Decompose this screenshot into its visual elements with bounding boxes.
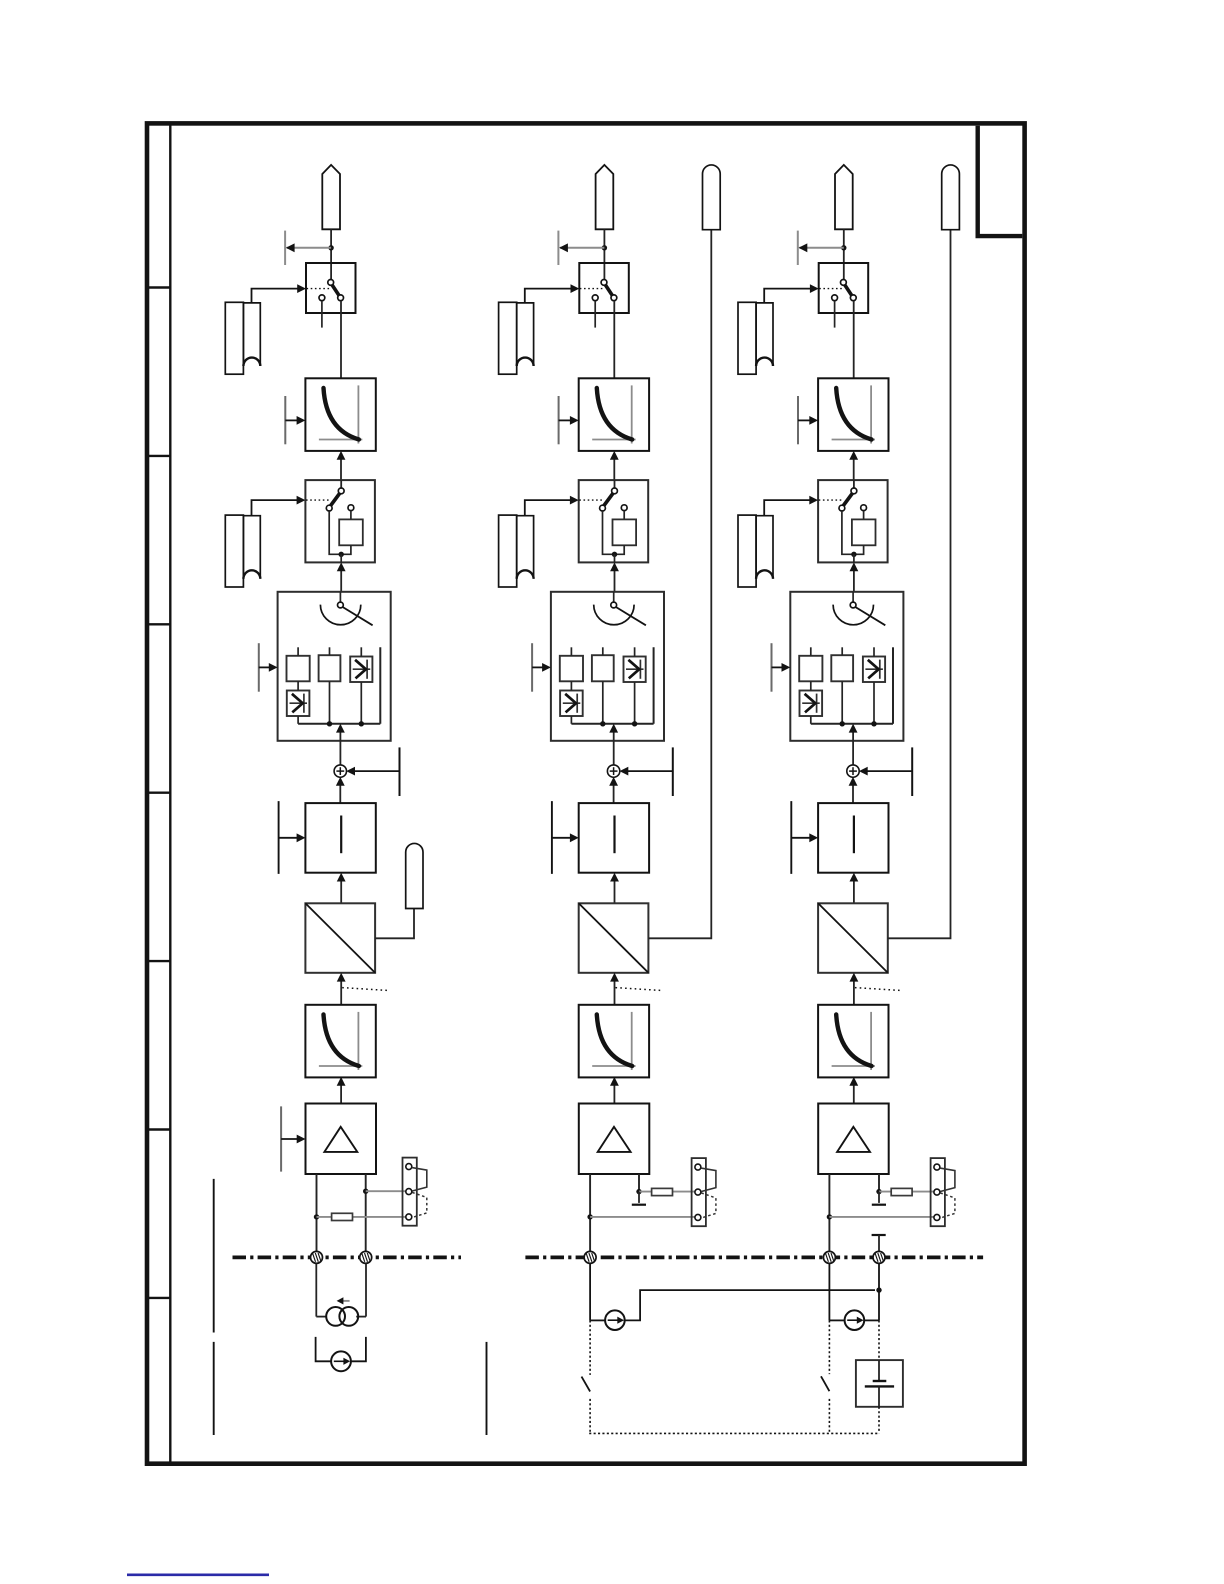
wire: F1.2 up to DIV1 bbox=[337, 973, 346, 1005]
bushing terminal left (column 1) bbox=[311, 1251, 323, 1263]
selector switch S2.2 (box) bbox=[579, 480, 649, 562]
U3 rail node 1 bbox=[840, 721, 845, 726]
wire: node to terminal strip TB1 pin2 bbox=[366, 1190, 406, 1192]
node on A2 left output bbox=[587, 1214, 592, 1219]
summing junction SUM3 bbox=[847, 765, 859, 777]
amplifier block A2 bbox=[579, 1104, 650, 1175]
wire: J1.1 to TP1.1 bbox=[286, 243, 331, 252]
wire: M1 down to node bbox=[342, 545, 351, 554]
wire: P1.1 to S1.1 select input bbox=[252, 284, 307, 302]
arrow input into I2 bbox=[552, 833, 579, 842]
wire: X3.1 down to switch S3.1 bbox=[843, 229, 845, 279]
U1 square B stub bbox=[329, 647, 331, 655]
function block F2.2 (decay characteristic) bbox=[579, 1005, 649, 1078]
bushing terminal right (column 3) bbox=[873, 1251, 885, 1263]
wire: S3.2 contact b down to node bbox=[842, 511, 853, 554]
wire: X1.1 down to switch S1.1 bbox=[330, 229, 332, 279]
wire: P2.2 to S2.2 select input bbox=[525, 496, 579, 515]
tap TP1.2 (T-bar) bbox=[284, 396, 286, 444]
disconnect switch SW2 (dotted feeder) bbox=[589, 1320, 591, 1375]
parameter curve symbol P2.1 bbox=[499, 302, 534, 374]
S1.1 contact a bbox=[328, 280, 334, 286]
transformer TR1 polarity arrow bbox=[337, 1297, 350, 1304]
integrator block I1 bbox=[305, 803, 375, 873]
column separator line a bbox=[213, 1179, 215, 1333]
current source CS2 bbox=[605, 1310, 625, 1330]
wire: bushing down to CS3 bbox=[828, 1264, 830, 1321]
wire: S2.2 contact b down to node bbox=[603, 511, 614, 554]
wire: DIV1 output to terminal Y1 bbox=[375, 909, 414, 939]
S1.2 contact a bbox=[338, 488, 344, 494]
arrow input into F3.1 bbox=[798, 416, 818, 425]
node J1.1 bbox=[328, 245, 333, 250]
terminal strip TB3 bbox=[931, 1158, 955, 1226]
selector switch S1.2 (box) bbox=[305, 480, 375, 562]
wire: bushing to CS2 left lead bbox=[590, 1319, 605, 1321]
U1 wire A to D bbox=[297, 681, 299, 690]
current source CS1 bbox=[331, 1351, 351, 1371]
system boundary dash-dot line (left segment) bbox=[233, 1256, 462, 1260]
U3 wire D down to rail bbox=[810, 716, 812, 724]
U1 meter arc bbox=[320, 605, 360, 625]
wire: A1 right output down bbox=[365, 1174, 367, 1251]
S3.1 contact c bbox=[850, 295, 856, 301]
S2.2 contact c bbox=[621, 505, 627, 511]
wire: node to TB1 pin3 (through R1) bbox=[317, 1216, 406, 1218]
U3 meter pivot stub bbox=[852, 592, 854, 602]
U3 wire C down to rail bbox=[873, 682, 875, 724]
memory sub-block M1 in S1.2 bbox=[339, 519, 363, 545]
U1 meter pivot bbox=[338, 602, 344, 608]
hyperlink underline (blue) bbox=[127, 1574, 269, 1577]
wire: DIV2 output up to terminal Y2 bbox=[648, 230, 711, 939]
limit controller box U3 (outline) bbox=[790, 592, 903, 741]
S1.2 lever bbox=[330, 493, 340, 507]
wire: P1.2 to S1.2 select input bbox=[252, 496, 306, 515]
wire: bushing to transformer bracket left bbox=[315, 1264, 317, 1317]
integrator block I2 bbox=[579, 803, 649, 873]
U2 threshold square B bbox=[592, 655, 614, 681]
wire: node J3.2 to S3.2 bottom bbox=[853, 554, 855, 562]
wire: amplifier up to F1.2 bbox=[337, 1077, 346, 1104]
U3 right riser bbox=[892, 647, 894, 724]
wire: F2.1 up to S2.1 bbox=[613, 301, 615, 378]
node J3.b bbox=[876, 1287, 881, 1292]
wire: sum up into U1 rail bbox=[336, 724, 345, 765]
wire: DIV3 output up to terminal Y3 bbox=[888, 230, 951, 939]
U2 meter arc bbox=[594, 605, 634, 625]
U1 rail node 1 bbox=[327, 721, 332, 726]
wire: battery feeder down bbox=[878, 1264, 880, 1321]
wire: M2 down to node bbox=[615, 545, 624, 554]
summing junction SUM1 bbox=[334, 765, 346, 777]
U2 square A stub bbox=[570, 647, 572, 656]
node J1.2 bbox=[339, 552, 344, 557]
U1 wire D down to rail bbox=[297, 716, 299, 724]
U3 meter pivot bbox=[850, 602, 856, 608]
wire: A2 right output down bbox=[638, 1174, 640, 1192]
S2.2 lever bbox=[604, 493, 614, 507]
arrow input into U1 bbox=[259, 663, 278, 672]
transformer TR1 winding 2 bbox=[339, 1307, 358, 1326]
wire: J2.1 to TP2.1 bbox=[559, 243, 604, 252]
arrow input into F2.1 bbox=[559, 416, 579, 425]
wire: integrator up to SUM1 bbox=[336, 777, 345, 803]
U3 limiter square C bbox=[863, 657, 885, 683]
S3.2 lever bbox=[843, 493, 853, 507]
tap T-bar right of SUM1 bbox=[399, 747, 401, 796]
divider block DIV1 bbox=[305, 903, 375, 973]
ground stub G2 bbox=[632, 1192, 646, 1205]
wire: S3.2 up to F3.1 bbox=[849, 451, 858, 480]
output terminal Y1 bbox=[406, 843, 423, 908]
wire: amplifier up to F2.2 bbox=[610, 1077, 619, 1104]
bushing terminal left (column 3) bbox=[823, 1251, 835, 1263]
wire: amplifier up to F3.2 bbox=[849, 1077, 858, 1104]
U3 bottom rail bbox=[811, 723, 893, 725]
wire: node J2.2 to S2.2 bottom bbox=[614, 554, 616, 562]
memory sub-block M3 in S3.2 bbox=[852, 519, 876, 545]
disconnect switch SW2 blade bbox=[582, 1377, 591, 1392]
U2 wire D down to rail bbox=[570, 716, 572, 724]
current source CS1 arrow bbox=[334, 1358, 350, 1365]
node on A2 right output bbox=[636, 1189, 641, 1194]
current source CS3 arrow bbox=[847, 1317, 863, 1324]
bushing terminal (column 2) bbox=[584, 1251, 596, 1263]
transformer TR1 bracket bbox=[316, 1316, 366, 1318]
U3 threshold square B bbox=[831, 655, 853, 681]
selector switch S2.1 (box) bbox=[579, 263, 629, 313]
wire: S2.2 contact c to M2 bbox=[623, 511, 625, 520]
terminal strip TB1 bbox=[403, 1158, 427, 1226]
U1 rail node 2 bbox=[359, 721, 364, 726]
terminal strip TB2 bbox=[692, 1158, 716, 1226]
limit controller box U1 (outline) bbox=[278, 592, 391, 741]
wire: limit unit up to S1.2 bbox=[337, 562, 346, 591]
S1.2 contact b bbox=[326, 505, 332, 511]
U2 threshold square A bbox=[560, 656, 583, 682]
current source CS1 bracket bbox=[316, 1337, 366, 1361]
arrow input into U3 bbox=[772, 663, 791, 672]
node on A3 right output bbox=[876, 1189, 881, 1194]
wire: X2.1 down to switch S2.1 bbox=[603, 229, 605, 279]
wire: sum up into U2 rail bbox=[609, 724, 618, 765]
function block F1.2 (decay characteristic) bbox=[305, 1005, 375, 1078]
parameter curve symbol P1.2 bbox=[225, 515, 260, 587]
output terminal Y3 bbox=[942, 165, 960, 230]
ground stub G3 bbox=[872, 1192, 886, 1205]
wire: bushing down to CS2 bbox=[589, 1264, 591, 1321]
test tap TP1.1 (T-bar) bbox=[284, 231, 286, 265]
amplifier block A1 bbox=[306, 1104, 377, 1175]
wire: right tap into SUM3 bbox=[859, 767, 912, 776]
selector switch S3.1 (box) bbox=[819, 263, 869, 313]
S2.1 dotted drive line bbox=[580, 288, 604, 290]
wire: A3 left output down bbox=[828, 1174, 830, 1251]
S1.2 contact c bbox=[348, 505, 354, 511]
U2 rail node 2 bbox=[632, 721, 637, 726]
frame zone tick marks bbox=[147, 288, 170, 1298]
tap TP3.4 (T-bar) bbox=[790, 801, 792, 874]
wire: sum up into U3 rail bbox=[849, 724, 858, 765]
S2.2 dotted drive line bbox=[579, 499, 604, 501]
S3.1 dotted drive line bbox=[819, 288, 843, 290]
U1 right riser bbox=[379, 647, 381, 724]
parameter curve symbol P2.2 bbox=[499, 515, 534, 587]
wire: right tap into SUM1 bbox=[346, 767, 399, 776]
U2 square C stub bbox=[634, 647, 636, 656]
S2.1 contact a bbox=[601, 280, 607, 286]
function block F1.1 (decay characteristic) bbox=[305, 378, 375, 451]
node J2.2 bbox=[612, 552, 617, 557]
U1 wire C down to rail bbox=[360, 682, 362, 724]
U3 square C stub bbox=[873, 647, 875, 656]
wire: P3.1 to S3.1 select input bbox=[764, 284, 819, 302]
node on A3 left output bbox=[827, 1214, 832, 1219]
arrow input into U2 bbox=[532, 663, 551, 672]
wire: CS3 right lead bbox=[864, 1319, 879, 1321]
S1.2 dotted drive line bbox=[306, 499, 331, 501]
U2 meter pivot bbox=[611, 602, 617, 608]
U2 right riser bbox=[653, 647, 655, 724]
selector switch S1.1 (box) bbox=[306, 263, 356, 313]
U3 wire B down to rail bbox=[841, 681, 843, 724]
summing junction SUM2 bbox=[607, 765, 619, 777]
U2 wire A to D bbox=[570, 681, 572, 690]
wire: T-bar down to bushing bbox=[878, 1235, 880, 1251]
tap TP2.3 (T-bar) bbox=[531, 643, 533, 692]
tap TP2.4 (T-bar) bbox=[551, 801, 553, 874]
wire: node to terminal strip TB3 pin2 bbox=[879, 1191, 934, 1193]
stub wire below S2.1 contact b bbox=[594, 301, 596, 328]
S3.2 contact a bbox=[851, 488, 857, 494]
S1.1 contact c bbox=[338, 295, 344, 301]
S2.2 contact b bbox=[600, 505, 606, 511]
S3.2 input stub bbox=[853, 480, 855, 488]
bushing terminal right (column 1) bbox=[360, 1251, 372, 1263]
drawing frame outer border bbox=[147, 123, 1025, 1463]
tap TP3.2 (T-bar) bbox=[797, 396, 799, 444]
disconnect switch SW3 blade bbox=[821, 1376, 829, 1391]
arrow input into A1 bbox=[281, 1135, 305, 1144]
disconnect switch SW2 lower dotted bbox=[589, 1399, 591, 1434]
S1.1 lever bbox=[331, 284, 339, 296]
U3 meter needle bbox=[854, 606, 885, 625]
U2 limiter square D bbox=[560, 691, 583, 717]
column separator line b bbox=[213, 1342, 215, 1435]
U2 meter needle bbox=[615, 606, 646, 625]
U1 limiter square C bbox=[350, 657, 372, 683]
battery box BT1 bbox=[856, 1360, 903, 1407]
U1 square C stub bbox=[360, 647, 362, 656]
wire: limit unit up to S3.2 bbox=[850, 562, 859, 591]
tap TP3.3 (T-bar) bbox=[771, 643, 773, 692]
output terminal Y2 bbox=[703, 165, 721, 230]
U2 limiter square C bbox=[624, 657, 646, 683]
wire: S1.2 contact c to M1 bbox=[350, 511, 352, 520]
terminal flag X3.1 bbox=[835, 165, 853, 229]
node on A1 left output bbox=[314, 1214, 319, 1219]
integrator block I3 bbox=[818, 803, 888, 873]
test tap TP2.1 (T-bar) bbox=[557, 231, 559, 265]
wire: divider up to I1 bbox=[337, 873, 346, 904]
resistor R3 bbox=[891, 1188, 912, 1195]
column separator line c bbox=[486, 1342, 488, 1435]
dotted slope marker at DIV3 input bbox=[855, 988, 900, 991]
wire: S2.2 up to F2.1 bbox=[610, 451, 619, 480]
U1 square A stub bbox=[297, 647, 299, 656]
S3.1 lever bbox=[844, 284, 852, 296]
wire: limit unit up to S2.2 bbox=[610, 562, 619, 591]
wire: S1.2 up to F1.1 bbox=[337, 451, 346, 480]
U3 wire A to D bbox=[810, 681, 812, 690]
S3.1 contact a bbox=[841, 280, 847, 286]
wire: battery feeder dotted bbox=[878, 1320, 880, 1360]
node J3.1 bbox=[841, 245, 846, 250]
arrow input into I1 bbox=[279, 833, 306, 842]
wire: A2 left output down bbox=[589, 1174, 591, 1251]
wire: battery bottom dotted bbox=[878, 1407, 880, 1434]
wire: F1.1 up to S1.1 bbox=[340, 301, 342, 378]
parameter curve symbol P1.1 bbox=[225, 302, 260, 374]
function block F3.1 (decay characteristic) bbox=[818, 378, 888, 451]
U1 limiter square D bbox=[287, 691, 310, 717]
test tap TP3.1 (T-bar) bbox=[797, 231, 799, 265]
selector switch S3.2 (box) bbox=[818, 480, 888, 562]
divider block DIV3 bbox=[818, 903, 888, 973]
U1 threshold square B bbox=[319, 655, 341, 681]
wire: right tap into SUM2 bbox=[620, 767, 673, 776]
title-block notch top right bbox=[978, 126, 1023, 236]
U3 threshold square A bbox=[799, 656, 822, 682]
wire: node to terminal strip TB2 pin2 bbox=[639, 1191, 695, 1193]
memory sub-block M2 in S2.2 bbox=[613, 519, 637, 545]
U3 limiter square D bbox=[800, 691, 823, 717]
S1.1 dotted drive line bbox=[307, 288, 331, 290]
wire: S1.2 contact b down to node bbox=[329, 511, 340, 554]
S3.2 contact b bbox=[839, 505, 845, 511]
wire: CS3 left lead bbox=[829, 1319, 844, 1321]
node J2.1 bbox=[602, 245, 607, 250]
U3 square B stub bbox=[841, 647, 843, 655]
disconnect switch SW3 (dotted feeder) bbox=[828, 1320, 830, 1374]
transformer TR1 winding 1 bbox=[326, 1307, 345, 1326]
parameter curve symbol P3.1 bbox=[738, 302, 773, 374]
reference T-bar above battery feeder bbox=[872, 1234, 886, 1236]
wire: A3 right output down bbox=[878, 1174, 880, 1192]
U2 wire C down to rail bbox=[634, 682, 636, 724]
stub wire below S1.1 contact b bbox=[321, 301, 323, 328]
S2.1 lever bbox=[605, 284, 613, 296]
arrow input into I3 bbox=[791, 833, 818, 842]
resistor R1 bbox=[332, 1213, 353, 1220]
terminal flag X1.1 bbox=[322, 165, 340, 229]
tap T-bar right of SUM2 bbox=[672, 747, 674, 796]
resistor R2 bbox=[652, 1188, 673, 1195]
U2 rail node 1 bbox=[600, 721, 605, 726]
battery BT1 plates bbox=[865, 1360, 894, 1407]
U3 rail node 2 bbox=[871, 721, 876, 726]
wire: node J1.2 to S1.2 bottom bbox=[340, 554, 342, 562]
U2 square B stub bbox=[602, 647, 604, 655]
wire: node to TB2 pin3 bbox=[590, 1216, 695, 1218]
node J3.2 bbox=[851, 552, 856, 557]
dotted slope marker at DIV2 input bbox=[616, 988, 661, 991]
dotted slope marker at DIV1 input bbox=[342, 988, 387, 991]
U2 bottom rail bbox=[571, 723, 653, 725]
tap TP1.5 (T-bar) bbox=[280, 1106, 282, 1171]
U1 bottom rail bbox=[298, 723, 380, 725]
wire: CS2 right lead and riser to column 3 bbox=[625, 1290, 875, 1320]
wire: F2.2 up to DIV2 bbox=[610, 973, 619, 1005]
wire: M3 down to node bbox=[855, 545, 864, 554]
U3 square A stub bbox=[810, 647, 812, 656]
tap TP2.2 (T-bar) bbox=[558, 396, 560, 444]
wire: F3.2 up to DIV3 bbox=[850, 973, 859, 1005]
U1 threshold square A bbox=[287, 656, 310, 682]
dotted return bus at bottom bbox=[589, 1432, 879, 1434]
wire: P2.1 to S2.1 select input bbox=[525, 284, 580, 302]
wire: divider up to I2 bbox=[610, 873, 619, 904]
S1.1 contact b bbox=[319, 295, 325, 301]
arrow input into F1.1 bbox=[285, 416, 305, 425]
S2.2 input stub bbox=[614, 480, 616, 488]
current source CS3 bbox=[845, 1310, 865, 1330]
function block F3.2 (decay characteristic) bbox=[818, 1005, 888, 1078]
disconnect switch SW3 lower dotted bbox=[828, 1399, 830, 1434]
tap TP1.4 (T-bar) bbox=[278, 801, 280, 874]
S2.2 contact a bbox=[612, 488, 618, 494]
U3 meter arc bbox=[833, 605, 873, 625]
wire: P3.2 to S3.2 select input bbox=[764, 496, 818, 515]
wire: F3.1 up to S3.1 bbox=[853, 301, 855, 378]
U1 meter pivot stub bbox=[339, 592, 341, 602]
function block F2.1 (decay characteristic) bbox=[579, 378, 649, 451]
U1 meter needle bbox=[342, 606, 373, 625]
U1 wire B down to rail bbox=[329, 681, 331, 724]
node on A1 right output bbox=[363, 1189, 368, 1194]
tap T-bar right of SUM3 bbox=[911, 747, 913, 796]
terminal flag X2.1 bbox=[596, 165, 614, 229]
wire: J3.1 to TP3.1 bbox=[799, 243, 844, 252]
S3.1 contact b bbox=[832, 295, 838, 301]
divider block DIV2 bbox=[579, 903, 649, 973]
U2 wire B down to rail bbox=[602, 681, 604, 724]
limit controller box U2 (outline) bbox=[551, 592, 664, 741]
wire: integrator up to SUM3 bbox=[849, 777, 858, 803]
parameter curve symbol P3.2 bbox=[738, 515, 773, 587]
S2.1 contact c bbox=[611, 295, 617, 301]
wire: A1 left output down bbox=[316, 1174, 318, 1251]
tap TP1.3 (T-bar) bbox=[258, 643, 260, 692]
stub wire below S3.1 contact b bbox=[834, 301, 836, 328]
amplifier block A3 bbox=[818, 1104, 889, 1175]
wire: bushing to transformer bracket right bbox=[365, 1264, 367, 1317]
current source CS2 arrow bbox=[608, 1317, 624, 1324]
wire: integrator up to SUM2 bbox=[609, 777, 618, 803]
S2.1 contact b bbox=[592, 295, 598, 301]
S3.2 contact c bbox=[861, 505, 867, 511]
frame left filing margin line bbox=[169, 123, 171, 1463]
system boundary dash-dot line (right segment) bbox=[525, 1256, 983, 1260]
S3.2 dotted drive line bbox=[819, 499, 844, 501]
S1.2 input stub bbox=[340, 480, 342, 488]
wire: node to TB3 pin3 bbox=[829, 1216, 934, 1218]
wire: S3.2 contact c to M3 bbox=[863, 511, 865, 520]
wire: divider up to I3 bbox=[850, 873, 859, 904]
U2 meter pivot stub bbox=[613, 592, 615, 602]
